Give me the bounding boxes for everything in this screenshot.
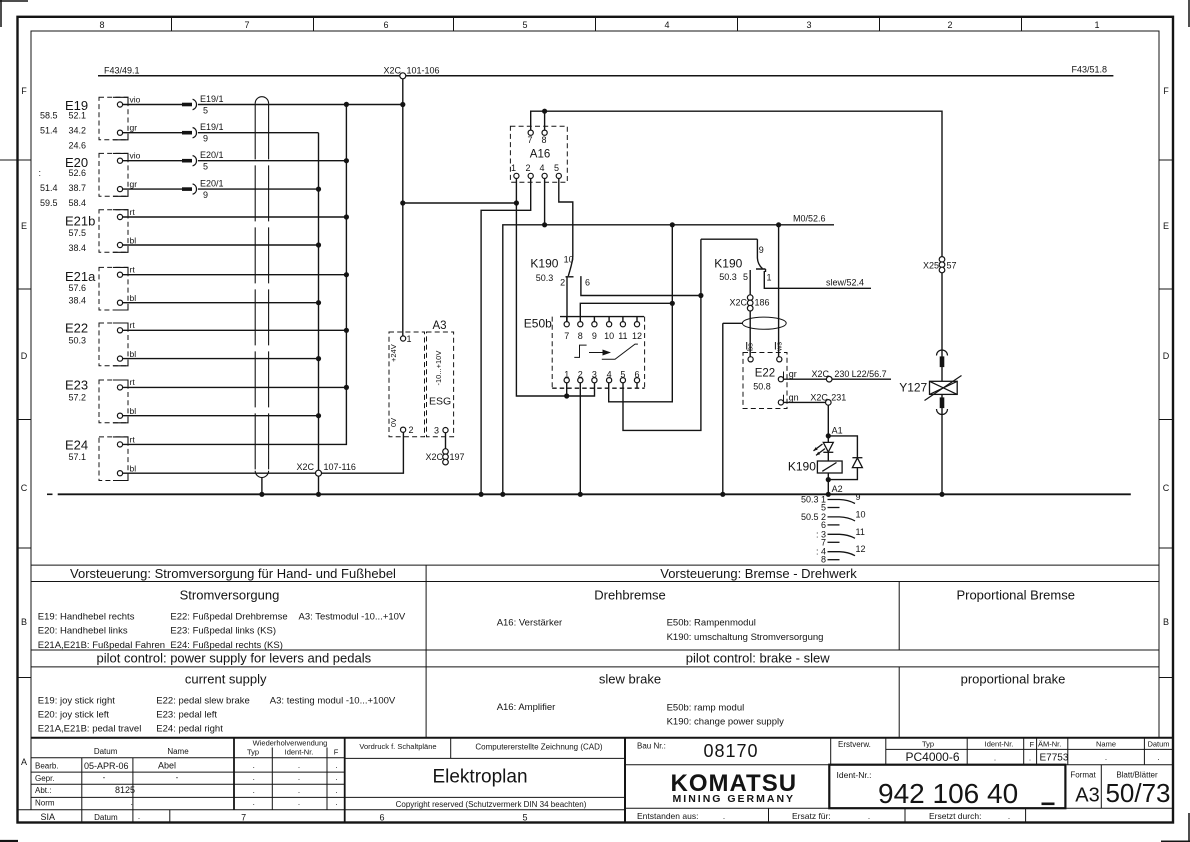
svg-text:B: B bbox=[21, 617, 27, 627]
svg-text:E22: E22 bbox=[65, 321, 88, 336]
svg-text:1: 1 bbox=[564, 370, 569, 380]
svg-text:57.1: 57.1 bbox=[68, 452, 86, 462]
svg-text:E23: E23 bbox=[65, 378, 88, 393]
svg-text:Computererstellte Zeichnung (C: Computererstellte Zeichnung (CAD) bbox=[475, 743, 602, 752]
svg-text:X2C: X2C bbox=[296, 462, 314, 472]
svg-text:7: 7 bbox=[241, 813, 246, 823]
svg-text:Copyright reserved (Schutzverm: Copyright reserved (Schutzvermerk DIN 34… bbox=[396, 800, 587, 809]
svg-text:E50b: Rampenmodul: E50b: Rampenmodul bbox=[667, 618, 756, 629]
svg-text:186: 186 bbox=[755, 298, 770, 308]
svg-text:10: 10 bbox=[856, 509, 866, 519]
svg-text:Format: Format bbox=[1070, 771, 1096, 780]
svg-text:10: 10 bbox=[564, 254, 574, 264]
svg-text:0V: 0V bbox=[389, 418, 398, 427]
svg-text:ws: ws bbox=[774, 342, 783, 352]
svg-text:5: 5 bbox=[554, 163, 559, 173]
svg-text:E50b: E50b bbox=[524, 317, 552, 331]
svg-text:.: . bbox=[131, 798, 133, 807]
svg-text:50.3: 50.3 bbox=[719, 272, 737, 282]
svg-text:50.8: 50.8 bbox=[753, 382, 771, 392]
svg-text:11: 11 bbox=[618, 331, 627, 341]
svg-text:50.3: 50.3 bbox=[801, 495, 819, 505]
svg-text:-: - bbox=[103, 773, 106, 782]
svg-text:.: . bbox=[253, 798, 255, 807]
svg-text:5: 5 bbox=[522, 813, 527, 823]
svg-text:5: 5 bbox=[203, 106, 208, 116]
svg-text:E21A,E21B: Fußpedal Fahren: E21A,E21B: Fußpedal Fahren bbox=[38, 640, 165, 651]
svg-text:50.5: 50.5 bbox=[801, 512, 819, 522]
svg-text:Elektroplan: Elektroplan bbox=[432, 767, 527, 788]
svg-text:3: 3 bbox=[434, 426, 439, 436]
svg-text:2: 2 bbox=[560, 278, 565, 288]
svg-text:L22/56.7: L22/56.7 bbox=[852, 369, 887, 379]
svg-text:1: 1 bbox=[511, 163, 516, 173]
svg-text:E19/1: E19/1 bbox=[200, 94, 224, 104]
svg-text:52.6: 52.6 bbox=[68, 168, 86, 178]
svg-text:5: 5 bbox=[522, 20, 527, 30]
svg-text:E22: Fußpedal Drehbremse: E22: Fußpedal Drehbremse bbox=[170, 612, 287, 623]
svg-text::: : bbox=[816, 529, 819, 539]
svg-text:4: 4 bbox=[607, 370, 612, 380]
svg-text:9: 9 bbox=[856, 492, 861, 502]
svg-text:rt: rt bbox=[130, 265, 136, 275]
svg-text:1: 1 bbox=[767, 273, 772, 283]
svg-text:Datum: Datum bbox=[94, 747, 118, 756]
svg-text:E19: Handhebel rechts: E19: Handhebel rechts bbox=[38, 612, 135, 623]
svg-text:2: 2 bbox=[947, 20, 952, 30]
svg-text:A3: A3 bbox=[1075, 785, 1099, 807]
svg-text:38.4: 38.4 bbox=[68, 243, 86, 253]
svg-text:E: E bbox=[21, 221, 27, 231]
svg-text:A16: A16 bbox=[530, 149, 550, 161]
svg-text:Bearb.: Bearb. bbox=[35, 762, 59, 771]
svg-text:1: 1 bbox=[406, 334, 411, 344]
svg-text:bs: bs bbox=[746, 343, 755, 351]
svg-text:F43/49.1: F43/49.1 bbox=[104, 66, 140, 76]
svg-text:F: F bbox=[334, 748, 339, 757]
svg-text:.: . bbox=[253, 773, 255, 782]
svg-text:Norm: Norm bbox=[35, 799, 55, 808]
svg-text:bl: bl bbox=[130, 293, 137, 303]
svg-text:57.6: 57.6 bbox=[68, 283, 86, 293]
svg-text:8: 8 bbox=[821, 555, 826, 565]
svg-text:Datum: Datum bbox=[94, 813, 118, 822]
svg-text:6: 6 bbox=[379, 813, 384, 823]
svg-text:proportional brake: proportional brake bbox=[961, 672, 1066, 687]
svg-text:E20: joy stick left: E20: joy stick left bbox=[38, 710, 110, 721]
svg-text:E23: pedal left: E23: pedal left bbox=[156, 710, 217, 721]
svg-text:.: . bbox=[298, 786, 300, 795]
svg-text:SIA: SIA bbox=[41, 812, 56, 822]
svg-text:05-APR-06: 05-APR-06 bbox=[84, 761, 129, 771]
svg-text:.: . bbox=[1029, 754, 1031, 763]
svg-text:Stromversorgung: Stromversorgung bbox=[180, 588, 280, 603]
svg-text:8125: 8125 bbox=[115, 785, 135, 795]
svg-text:Ident-Nr.: Ident-Nr. bbox=[985, 740, 1014, 749]
svg-text:E22: E22 bbox=[755, 368, 775, 380]
svg-text:X2C: X2C bbox=[729, 298, 747, 308]
svg-text:E20/1: E20/1 bbox=[200, 179, 224, 189]
svg-text:.: . bbox=[138, 812, 140, 821]
svg-text:7: 7 bbox=[244, 20, 249, 30]
svg-text:-: - bbox=[176, 773, 179, 782]
svg-text:2: 2 bbox=[525, 163, 530, 173]
svg-text:.: . bbox=[1008, 812, 1010, 821]
svg-text:Gepr.: Gepr. bbox=[35, 774, 55, 783]
svg-text:Drehbremse: Drehbremse bbox=[594, 588, 666, 603]
svg-text:197: 197 bbox=[450, 452, 465, 462]
svg-text:E24: pedal right: E24: pedal right bbox=[156, 724, 223, 735]
svg-text:.: . bbox=[723, 812, 725, 821]
svg-text:E50b: ramp modul: E50b: ramp modul bbox=[667, 703, 745, 714]
svg-text:Typ: Typ bbox=[247, 748, 259, 757]
svg-text:E22: pedal slew brake: E22: pedal slew brake bbox=[156, 696, 249, 707]
svg-text:7: 7 bbox=[527, 135, 532, 145]
svg-text:E: E bbox=[1163, 221, 1169, 231]
svg-text:.: . bbox=[1157, 753, 1159, 762]
svg-text:Ersetzt durch:: Ersetzt durch: bbox=[929, 811, 981, 821]
svg-text:24.6: 24.6 bbox=[68, 140, 86, 150]
svg-text:B: B bbox=[1163, 617, 1169, 627]
svg-text:.: . bbox=[868, 812, 870, 821]
svg-text:9: 9 bbox=[592, 331, 597, 341]
svg-text:Ident-Nr.: Ident-Nr. bbox=[285, 748, 314, 757]
svg-text:rt: rt bbox=[130, 377, 136, 387]
svg-text:230: 230 bbox=[834, 369, 849, 379]
svg-text:pilot control: power supply fo: pilot control: power supply for levers a… bbox=[97, 651, 372, 666]
svg-text:rt: rt bbox=[130, 435, 136, 445]
svg-text:A16: Verstärker: A16: Verstärker bbox=[497, 618, 562, 629]
svg-text:1: 1 bbox=[1094, 20, 1099, 30]
svg-text:57.2: 57.2 bbox=[68, 393, 86, 403]
svg-text:.: . bbox=[335, 786, 337, 795]
svg-text:C: C bbox=[21, 483, 28, 493]
svg-text:E21A,E21B: pedal travel: E21A,E21B: pedal travel bbox=[38, 724, 142, 735]
svg-text:2: 2 bbox=[409, 425, 414, 435]
svg-text::: : bbox=[38, 168, 41, 178]
svg-text:107-116: 107-116 bbox=[324, 462, 356, 472]
svg-text:6: 6 bbox=[585, 278, 590, 288]
svg-text:6: 6 bbox=[634, 370, 639, 380]
svg-text:Entstanden aus:: Entstanden aus: bbox=[637, 811, 698, 821]
svg-text:-10...+10V: -10...+10V bbox=[434, 351, 443, 386]
svg-text:Typ: Typ bbox=[922, 740, 934, 749]
svg-text:.: . bbox=[253, 786, 255, 795]
svg-text:gr: gr bbox=[789, 369, 797, 379]
svg-text:K190: change power supply: K190: change power supply bbox=[667, 717, 784, 728]
svg-text:A3: A3 bbox=[433, 320, 447, 332]
svg-text:F: F bbox=[1030, 740, 1035, 749]
svg-text:231: 231 bbox=[831, 393, 846, 403]
svg-text:PC4000-6: PC4000-6 bbox=[905, 750, 959, 764]
svg-text:D: D bbox=[21, 351, 28, 361]
svg-text::: : bbox=[816, 547, 819, 557]
svg-text:F: F bbox=[21, 86, 27, 96]
svg-text:34.2: 34.2 bbox=[68, 125, 86, 135]
svg-text:Name: Name bbox=[167, 747, 189, 756]
svg-text:4: 4 bbox=[664, 20, 669, 30]
svg-text:E21a: E21a bbox=[65, 269, 96, 284]
svg-text:X2C: X2C bbox=[812, 369, 830, 379]
svg-text:57: 57 bbox=[947, 261, 957, 271]
svg-text:E21b: E21b bbox=[65, 214, 95, 229]
svg-text:M0/52.6: M0/52.6 bbox=[793, 214, 826, 224]
svg-text:12: 12 bbox=[632, 331, 642, 341]
svg-text:A2: A2 bbox=[832, 484, 843, 494]
svg-text:7: 7 bbox=[564, 331, 569, 341]
svg-text:vio: vio bbox=[130, 95, 141, 105]
svg-text:Ersatz für:: Ersatz für: bbox=[792, 811, 831, 821]
svg-text:Name: Name bbox=[1096, 740, 1116, 749]
svg-text:4: 4 bbox=[539, 163, 544, 173]
svg-text:A16: Amplifier: A16: Amplifier bbox=[497, 702, 556, 713]
svg-text:Erstverw.: Erstverw. bbox=[838, 740, 871, 749]
svg-text:rt: rt bbox=[130, 207, 136, 217]
svg-text:E24: E24 bbox=[65, 438, 88, 453]
svg-text:Datum: Datum bbox=[1147, 740, 1169, 749]
svg-text:Wiederholverwendung: Wiederholverwendung bbox=[253, 739, 328, 748]
svg-text:gr: gr bbox=[130, 123, 138, 133]
svg-text:8: 8 bbox=[541, 135, 546, 145]
svg-text:K190: K190 bbox=[788, 460, 816, 474]
svg-text:9: 9 bbox=[203, 190, 208, 200]
svg-text:52.1: 52.1 bbox=[68, 111, 86, 121]
svg-text:50.3: 50.3 bbox=[536, 273, 554, 283]
svg-text:59.5: 59.5 bbox=[40, 198, 58, 208]
svg-text:A: A bbox=[21, 757, 27, 767]
svg-text:gr: gr bbox=[130, 179, 138, 189]
svg-text:3: 3 bbox=[592, 370, 597, 380]
svg-text:A3: testing modul -10...+100V: A3: testing modul -10...+100V bbox=[270, 696, 396, 707]
svg-text:58.5: 58.5 bbox=[40, 111, 58, 121]
svg-text:E19: joy stick right: E19: joy stick right bbox=[38, 696, 115, 707]
svg-text:.: . bbox=[335, 761, 337, 770]
svg-text:F43/51.8: F43/51.8 bbox=[1072, 65, 1108, 75]
svg-text:E7753: E7753 bbox=[1040, 753, 1069, 764]
svg-text:bl: bl bbox=[130, 464, 137, 474]
svg-text:.: . bbox=[1105, 753, 1107, 762]
svg-text:8: 8 bbox=[578, 331, 583, 341]
svg-text:.: . bbox=[994, 754, 996, 763]
svg-text:Vorsteuerung: Stromversorgung: Vorsteuerung: Stromversorgung für Hand- … bbox=[70, 566, 396, 581]
svg-text:slew/52.4: slew/52.4 bbox=[826, 278, 864, 288]
svg-text:E20: Handhebel links: E20: Handhebel links bbox=[38, 626, 128, 637]
svg-text:.: . bbox=[335, 773, 337, 782]
svg-text:+24V: +24V bbox=[389, 344, 398, 362]
svg-text:MINING GERMANY: MINING GERMANY bbox=[673, 793, 796, 805]
svg-text:X2C: X2C bbox=[383, 66, 401, 76]
svg-text:Abt.:: Abt.: bbox=[35, 786, 51, 795]
svg-text:57.5: 57.5 bbox=[68, 228, 86, 238]
svg-text:E23: Fußpedal links (KS): E23: Fußpedal links (KS) bbox=[170, 626, 276, 637]
svg-text:C: C bbox=[1163, 483, 1170, 493]
svg-text:Bau Nr.:: Bau Nr.: bbox=[637, 742, 666, 751]
svg-text:9: 9 bbox=[759, 245, 764, 255]
svg-text:11: 11 bbox=[856, 527, 865, 537]
svg-text:6: 6 bbox=[383, 20, 388, 30]
svg-text:K190: K190 bbox=[530, 257, 558, 271]
svg-text:Vorsteuerung: Bremse - Drehwer: Vorsteuerung: Bremse - Drehwerk bbox=[660, 566, 857, 581]
svg-text:ÄM-Nr.: ÄM-Nr. bbox=[1038, 740, 1061, 749]
svg-text:Proportional Bremse: Proportional Bremse bbox=[956, 588, 1075, 603]
svg-text:2: 2 bbox=[578, 370, 583, 380]
svg-text:Abel: Abel bbox=[158, 761, 176, 771]
svg-text:gn: gn bbox=[789, 393, 799, 403]
svg-text:.: . bbox=[335, 798, 337, 807]
svg-text:942 106 40: 942 106 40 bbox=[878, 778, 1018, 809]
svg-text:current supply: current supply bbox=[185, 672, 267, 687]
svg-text:bl: bl bbox=[130, 406, 137, 416]
svg-text:5: 5 bbox=[203, 162, 208, 172]
svg-text:D: D bbox=[1163, 351, 1170, 361]
svg-text:bl: bl bbox=[130, 349, 137, 359]
svg-text:vio: vio bbox=[130, 151, 141, 161]
svg-text:5: 5 bbox=[620, 370, 625, 380]
svg-text:9: 9 bbox=[203, 134, 208, 144]
svg-text:38.7: 38.7 bbox=[68, 183, 86, 193]
svg-text:51.4: 51.4 bbox=[40, 183, 58, 193]
svg-text:.: . bbox=[253, 761, 255, 770]
svg-text:.: . bbox=[298, 798, 300, 807]
svg-text:rt: rt bbox=[130, 320, 136, 330]
svg-text:38.4: 38.4 bbox=[68, 296, 86, 306]
svg-text:A3: Testmodul -10...+10V: A3: Testmodul -10...+10V bbox=[299, 612, 406, 623]
svg-text:K190: umschaltung Stromversorg: K190: umschaltung Stromversorgung bbox=[667, 632, 824, 643]
svg-text:pilot control: brake - slew: pilot control: brake - slew bbox=[686, 651, 830, 666]
svg-text:50/73: 50/73 bbox=[1105, 778, 1170, 808]
svg-text:X25: X25 bbox=[923, 261, 939, 271]
svg-text:58.4: 58.4 bbox=[68, 198, 86, 208]
svg-text:ESG: ESG bbox=[429, 396, 451, 408]
svg-text:Ident-Nr.:: Ident-Nr.: bbox=[837, 770, 872, 780]
svg-text:8: 8 bbox=[99, 20, 104, 30]
svg-text:101-106: 101-106 bbox=[407, 66, 440, 76]
svg-text:A1: A1 bbox=[832, 426, 843, 436]
svg-text:08170: 08170 bbox=[703, 741, 758, 761]
svg-text:E24: Fußpedal rechts (KS): E24: Fußpedal rechts (KS) bbox=[170, 640, 282, 651]
svg-text:.: . bbox=[298, 773, 300, 782]
svg-text:51.4: 51.4 bbox=[40, 125, 58, 135]
svg-text:.: . bbox=[298, 761, 300, 770]
svg-text:X2C: X2C bbox=[425, 452, 443, 462]
svg-text:E19/1: E19/1 bbox=[200, 122, 224, 132]
svg-text:X2C: X2C bbox=[810, 393, 828, 403]
svg-text:12: 12 bbox=[856, 544, 866, 554]
svg-text:10: 10 bbox=[604, 331, 614, 341]
svg-text:Vordruck f. Schaltpläne: Vordruck f. Schaltpläne bbox=[359, 742, 436, 751]
svg-text:5: 5 bbox=[743, 272, 748, 282]
svg-text:E20/1: E20/1 bbox=[200, 150, 224, 160]
svg-text:3: 3 bbox=[806, 20, 811, 30]
svg-text:bl: bl bbox=[130, 236, 137, 246]
svg-text:slew brake: slew brake bbox=[599, 672, 661, 687]
svg-text:K190: K190 bbox=[714, 257, 742, 271]
svg-text:Y127: Y127 bbox=[899, 381, 927, 395]
svg-text:50.3: 50.3 bbox=[68, 336, 86, 346]
svg-text:F: F bbox=[1163, 86, 1169, 96]
